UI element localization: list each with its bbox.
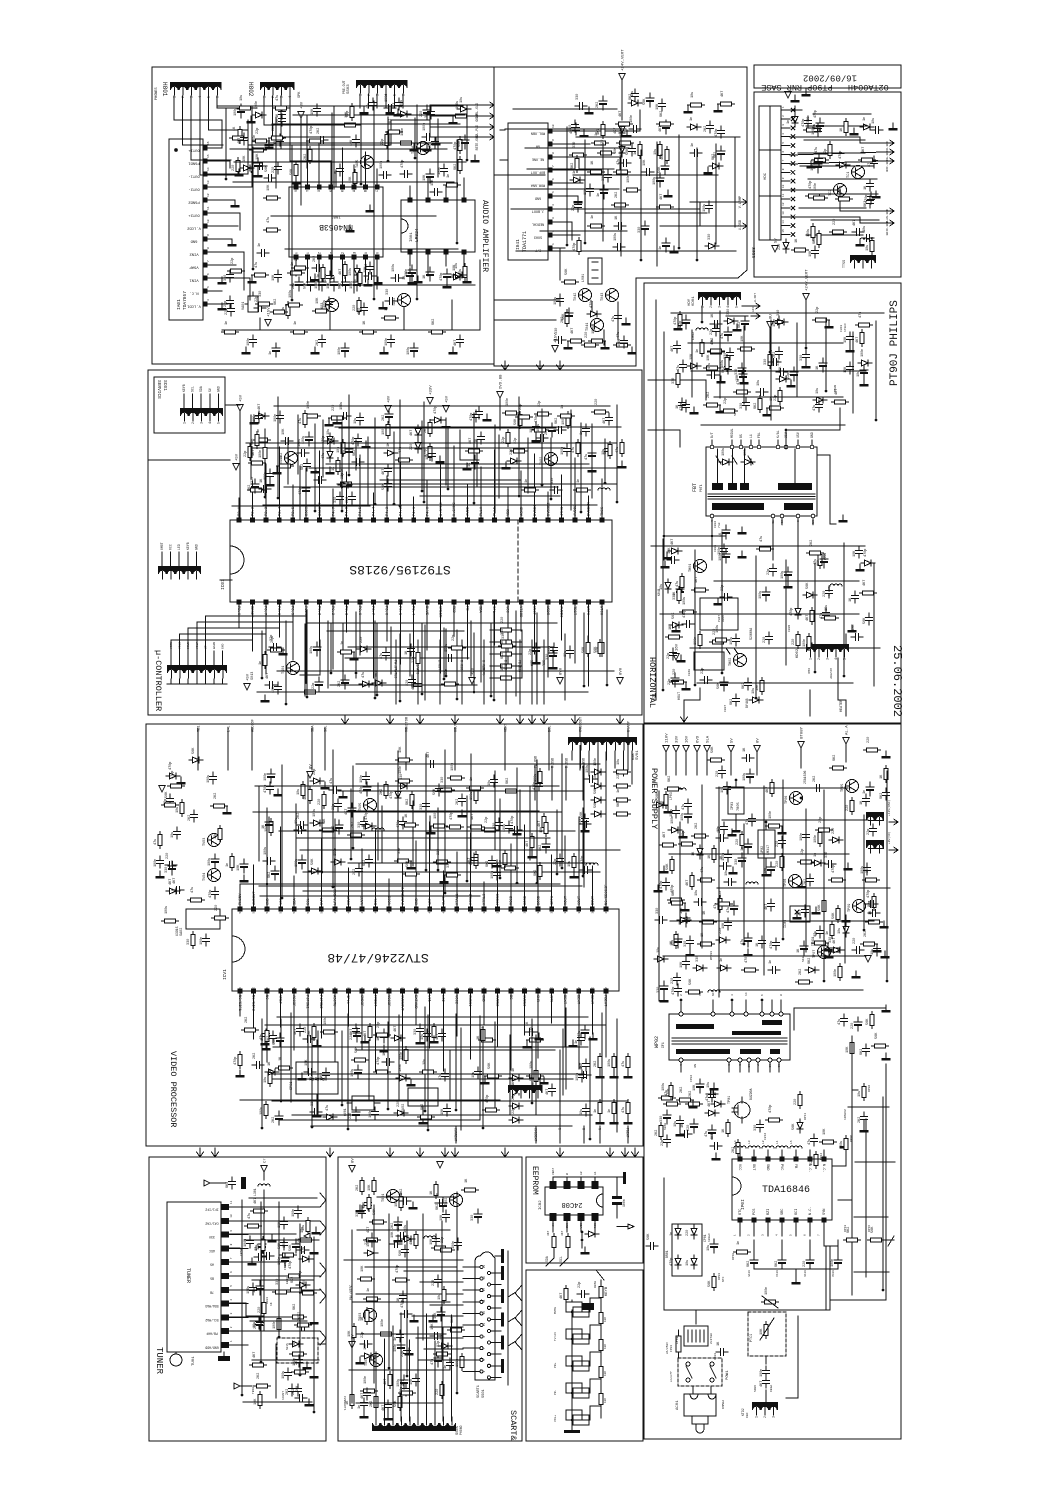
io tag [537,361,544,370]
svg-text:BTOSY: BTOSY [437,660,441,670]
svg-text:330: 330 [735,369,739,375]
capacitor C47 [724,879,736,886]
svg-text:4K7: 4K7 [760,1381,764,1387]
capacitor C22 [247,1236,254,1248]
svg-text:4K7: 4K7 [799,910,803,916]
capacitor C30 [356,864,363,876]
pin 12 N.C. [203,289,208,294]
resistor R82 [768,352,772,369]
ground [463,463,472,470]
ground [802,89,811,96]
svg-text:22p: 22p [767,569,771,575]
resistor R56 [158,832,162,849]
st92195 pin P3.5 [398,600,403,605]
svg-text:220: 220 [436,1389,440,1395]
tda1771 pin MOR.GNA [548,181,553,186]
ground [624,1117,633,1124]
power flag +15V [265,320,271,327]
resistor R15 [626,1054,630,1071]
transistor TV04 [208,869,221,882]
diode D96 [719,459,733,465]
choke L.A [674,788,686,790]
capacitor C11 [724,782,731,794]
st92195 pin PLLF [492,518,497,523]
transistor TP08 [789,875,802,888]
stv2246 pin CUBS1 [468,989,473,994]
st92195 pin SCL [492,600,497,605]
capacitor C37 [357,413,364,425]
capacitor C67 [667,557,679,564]
svg-text:220: 220 [671,978,675,984]
svg-text:T041: T041 [586,323,590,331]
section box TUNER [149,1157,326,1441]
power flag 16V [683,746,689,753]
svg-text:FBEXT: FBEXT [626,1128,630,1138]
svg-text:10u: 10u [302,1225,306,1231]
svg-text:100u: 100u [407,347,411,355]
svg-text:470p: 470p [672,987,676,995]
resistor R04 [814,1152,818,1169]
capacitor C72 [713,324,720,336]
svg-text:56K: 56K [813,158,817,165]
service connector SC01 [154,377,225,433]
resistor R27 [620,440,624,457]
capacitor C85 [682,913,690,927]
ground [580,130,589,137]
ground [350,653,359,660]
tda16846 pin OUT [752,1157,757,1162]
wire mesh [225,108,227,179]
svg-text:220: 220 [272,167,276,173]
io tag [442,1148,449,1157]
svg-text:17: 17 [455,987,458,991]
coil L301 [263,1172,265,1180]
svg-text:47u: 47u [255,262,259,268]
stv2246 pin XTRL3 [482,907,487,912]
resistor R39 [692,834,709,838]
regulator IP02 LM317 [758,830,775,858]
stv2246 pin IRTH [549,907,554,912]
svg-text:5: 5 [735,306,739,308]
svg-text:ST92195/9218S: ST92195/9218S [349,562,451,577]
capacitor C54 [824,861,836,868]
svg-text:+24V_VERT: +24V_VERT [622,49,626,71]
svg-text:A1: A1 [594,1171,597,1175]
video top wire SDA [311,728,313,770]
diode D77 [687,363,701,369]
capacitor C32 [254,158,262,172]
svg-text:2K2: 2K2 [695,823,699,829]
resistor R17 [463,264,467,281]
svg-text:N.C.: N.C. [809,1206,813,1215]
resistor R26 [458,137,462,154]
capacitor C56 [397,1330,404,1342]
resistor R48 [534,1068,538,1085]
resistor R31 [262,1300,266,1317]
svg-text:21: 21 [509,987,512,991]
capacitor C79 [763,1366,770,1378]
resistor R90 [242,1028,259,1032]
diode D17 [687,124,701,130]
svg-text:G.OSO: G.OSO [481,660,485,670]
pin 8 GND [203,237,208,242]
svg-text:100n: 100n [293,1358,297,1366]
resistor R45 [811,196,828,200]
capacitor C14 [349,492,356,504]
capacitor C44 [725,850,732,862]
ic IB03 MN4053B analog switch [289,187,383,257]
connector H21 [806,644,849,652]
io tag [387,715,394,724]
resistor R18 [626,1100,630,1117]
ground [471,155,480,162]
svg-text:10K: 10K [853,550,857,557]
svg-text:IF1: IF1 [661,1042,665,1048]
ground [414,276,423,283]
diode D94 [668,548,682,554]
capacitor C01 eeprom [612,1196,622,1199]
svg-text:AS: AS [210,1263,214,1267]
resistor R28 [708,758,725,762]
capacitor C52 [254,305,266,312]
svg-text:L1: L1 [749,434,753,438]
svg-text:AFC: AFC [752,306,755,312]
capacitor C70 [687,936,694,948]
capacitor C49 [476,407,483,419]
resistor R19 [236,158,240,175]
svg-text:2: 2 [191,422,195,424]
svg-text:CURRENT: CURRENT [454,1128,458,1141]
capacitor C46 [814,159,822,173]
svg-text:S1G: S1G [802,956,805,962]
svg-text:SCL: SCL [325,726,329,732]
resistor R33 [358,270,362,287]
ground [881,951,890,958]
svg-text:V.LCD1: V.LCD1 [186,304,200,308]
st92195 pin P4.7 [331,518,336,523]
svg-text:22p: 22p [341,473,345,479]
svg-text:47u: 47u [622,1107,626,1113]
io tag [497,715,504,724]
svg-text:AL.A: AL.A [846,725,850,735]
section box POWER SUPPLY [644,723,901,1439]
svg-text:11: 11 [374,987,377,991]
svg-text:10u: 10u [354,418,358,424]
svg-text:45: 45 [388,910,391,914]
svg-text:10K: 10K [399,746,403,753]
svg-text:1n: 1n [447,174,451,178]
svg-text:100n: 100n [718,547,722,555]
svg-text:10K: 10K [852,624,856,631]
svg-text:470p: 470p [396,1265,400,1273]
ground [661,561,670,568]
io tag [885,158,894,164]
wire mesh [250,415,252,479]
svg-text:10u: 10u [171,832,175,838]
io tag [517,715,524,724]
capacitor C07 [733,634,740,646]
capacitor C68 [348,803,356,817]
capacitor C45 [871,127,883,134]
resistor R56 [261,1237,265,1254]
svg-text:470p: 470p [440,273,444,281]
svg-text:PTC1: PTC1 [750,1334,754,1342]
svg-text:22p: 22p [867,829,871,835]
svg-text:10u: 10u [816,388,820,394]
svg-text:8V: 8V [757,738,761,743]
svg-text:NC/SIF2: NC/SIF2 [250,995,255,1012]
svg-text:100n: 100n [273,1321,277,1329]
svg-text:B.OSO: B.OSO [503,660,507,670]
ic IC01 ST92195/9218S microcontroller [230,520,612,602]
svg-text:470p: 470p [310,126,314,134]
svg-text:MUTE: MUTE [554,1307,557,1314]
capacitor C38 [567,646,574,658]
svg-text:N.C.: N.C. [189,291,198,295]
svg-text:4K7: 4K7 [560,1293,564,1299]
resistor R79 [838,964,842,981]
svg-text:NTC: NTC [722,1276,725,1282]
capacitor C99 [385,479,392,491]
resistor R31 [361,1389,378,1393]
svg-text:1n: 1n [737,1241,741,1245]
tda1771 pin NE.UNE [548,155,553,160]
hdc pin [781,180,790,182]
power flag 8V [754,746,760,753]
stv2246 pin APR [549,989,554,994]
mains switch POW1 [678,1358,722,1386]
section box HORIZONTAL [644,283,901,724]
section box title block [754,65,901,88]
svg-text:V.LRMP: V.LRMP [739,196,743,208]
capacitor C17 [491,775,498,787]
capacitor C19 [823,608,830,620]
wire preout caps [359,94,361,108]
svg-text:4K7: 4K7 [454,340,458,346]
svg-text:330: 330 [727,309,731,315]
capacitor C29 [742,755,754,762]
diode D94 [813,397,827,403]
resistor R26 [298,1238,315,1242]
svg-text:10u: 10u [825,605,829,611]
capacitor C63 [415,679,422,691]
svg-text:56K: 56K [711,746,715,753]
svg-text:110V: 110V [666,733,670,743]
ground [882,1005,891,1012]
ground [610,1117,619,1124]
power flag BU [767,322,773,329]
svg-text:TDA1771: TDA1771 [522,231,528,252]
svg-text:470p: 470p [769,1105,773,1113]
resistor R54 [352,1324,356,1341]
svg-text:4K7: 4K7 [833,938,837,944]
resistor R34 [830,766,847,770]
switch SW5 [566,1410,582,1420]
svg-text:PGND2: PGND2 [188,200,200,204]
resistor R17 [612,1100,616,1117]
st92195 pin P2.5 [290,518,295,523]
diode D48 [591,811,605,817]
diode D28 [361,1353,375,1359]
capacitor C86 [489,856,496,868]
capacitor C59 [413,1374,420,1386]
svg-text:10u: 10u [866,245,870,251]
svg-text:12: 12 [387,987,390,991]
svg-text:100u: 100u [323,300,327,308]
svg-text:VSAP: VSAP [189,265,199,269]
capacitor C11 [353,277,361,291]
resistor R16 [448,776,465,780]
connector HDC crt socket [759,106,781,240]
capacitor C07 [307,277,315,291]
svg-text:TA02: TA02 [393,298,397,306]
diode D78 [653,802,667,808]
resistor R64 [448,1328,465,1332]
ground [177,777,186,784]
resistor R04 [245,1224,262,1228]
resistor R12 [264,196,281,200]
resistor R49 [614,812,631,816]
resistor R68 [868,1238,885,1242]
svg-text:2K2: 2K2 [456,799,460,805]
resistor R27 [280,1253,297,1257]
svg-text:10K: 10K [272,274,276,281]
svg-text:47u: 47u [838,1019,842,1025]
resistor R69 [588,224,605,228]
resistor RB02 [566,1234,570,1251]
svg-text:Z1: Z1 [316,252,320,256]
capacitor C15 [408,265,416,279]
capacitor C65 [679,398,686,410]
svg-text:B: B [566,1173,569,1175]
svg-text:TP01: TP01 [728,1096,732,1104]
ground [842,915,851,922]
svg-text:220: 220 [686,1230,690,1236]
svg-text:2K2: 2K2 [594,1061,598,1067]
transistor T041 [591,319,604,332]
fbt bottom terminals [710,514,714,518]
crystal box SA02 [186,909,220,929]
svg-text:100n: 100n [292,1209,296,1217]
ground [674,323,683,330]
svg-text:VCC: VCC [169,544,173,550]
st92195 pin DVBB0R [586,518,591,523]
resistor R07 [264,1102,268,1119]
resistor R71 [467,786,484,790]
resistor R71 [670,680,687,684]
capacitor C50 [367,262,374,274]
diode D39 [705,1110,719,1116]
capacitor C85 [847,332,854,344]
capacitor C87 [863,1044,870,1056]
pin bottom Vss [363,255,368,260]
pin 6 OUT2+ [203,211,208,216]
resistor R23 [342,123,359,127]
svg-text:2K2: 2K2 [382,415,386,421]
diode D59 [296,1282,310,1288]
resistor R90 [863,878,880,882]
svg-text:13: 13 [782,211,785,215]
capacitor C33 [264,175,276,182]
output comb +12V [868,816,884,821]
svg-text:8V: 8V [352,1158,356,1163]
svg-text:U.AMP: U.AMP [628,721,632,732]
resistor R31 [498,628,515,632]
svg-text:2K2: 2K2 [346,497,350,503]
svg-text:56K: 56K [594,787,598,794]
hdc pin [781,136,790,138]
ground [384,1413,393,1420]
svg-text:100u: 100u [681,813,685,821]
svg-text:2K2: 2K2 [280,453,284,459]
svg-text:47u: 47u [585,454,589,460]
capacitor C01 [314,477,326,484]
resistor R66 [367,1195,371,1212]
capacitor C84 [655,917,667,924]
svg-text:2K2: 2K2 [297,813,301,819]
capacitor C42 [661,161,669,175]
svg-text:220: 220 [832,828,836,834]
svg-text:10K: 10K [316,297,320,304]
svg-text:4K7: 4K7 [412,684,416,690]
tda1771 pin I/F [548,246,553,251]
resistor R58 [638,142,642,159]
pin bottom [462,250,467,255]
svg-text:CA1/CA2: CA1/CA2 [205,1221,218,1225]
svg-text:47u: 47u [380,653,384,659]
diode D90 [384,450,398,456]
svg-text:2K2: 2K2 [596,102,600,108]
svg-text:10u: 10u [617,759,621,765]
pin top K1 [328,185,333,190]
svg-text:GND: GND [194,544,198,550]
capacitor C62 [353,135,360,147]
resistor R51 [535,412,552,416]
capacitor C29 [615,311,622,323]
svg-text:FP01: FP01 [670,1345,673,1352]
capacitor C13 [733,694,740,706]
ss05 wire bundle [375,1352,377,1410]
svg-text:56K: 56K [689,978,693,985]
resistor R65 [308,787,312,804]
svg-text:MOR.GNA: MOR.GNA [530,183,545,187]
wire mesh [662,539,664,690]
ground [303,1362,312,1369]
svg-text:100n: 100n [400,1052,404,1060]
svg-text:56K: 56K [863,617,867,624]
svg-text:8: 8 [780,994,783,996]
resistor R61 [230,854,234,871]
svg-text:100u: 100u [586,765,590,773]
svg-text:14U3T: 14U3T [282,1391,285,1400]
svg-text:8K2: 8K2 [747,1261,751,1267]
svg-text:+8V: +8V [388,395,392,403]
resistor R32 [498,640,515,644]
capacitor C19 [368,1233,376,1247]
svg-text:15: 15 [207,154,210,158]
svg-text:40: 40 [456,910,459,914]
capacitor C19 [870,824,877,836]
svg-text:SDA/MA3: SDA/MA3 [205,1304,218,1308]
capacitor C81 [803,350,810,362]
diode D46 [591,797,605,803]
svg-text:2K2: 2K2 [214,793,218,799]
capacitor C53 [174,827,181,839]
svg-text:330: 330 [740,403,744,409]
svg-text:SYN: SYN [823,1209,827,1215]
capacitor C06 [551,643,558,655]
resistor R72 [503,789,520,793]
